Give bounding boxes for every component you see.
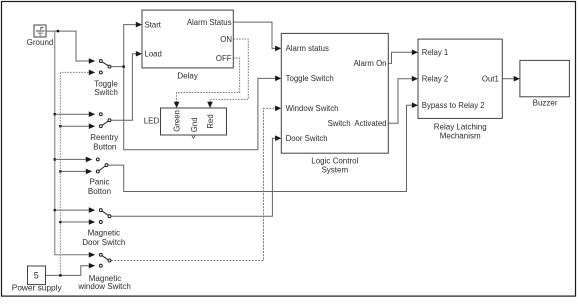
svg-text:OFF: OFF (216, 54, 232, 63)
wire power bus (60, 72, 89, 275)
port arrow Logic Toggle Switch (275, 76, 281, 82)
svg-text:Out1: Out1 (482, 75, 499, 84)
wire door output to Window Switch port (111, 138, 275, 216)
node door top junction (54, 209, 56, 211)
node door bottom junction (59, 221, 61, 223)
svg-text:Gnd: Gnd (190, 117, 199, 132)
svg-text:LED: LED (144, 116, 160, 125)
wire reentry output to Load (111, 54, 136, 120)
port arrow Bypass to Relay 2 (412, 102, 418, 108)
wire ground bus (55, 31, 89, 255)
svg-text:Button: Button (93, 142, 116, 151)
svg-text:Switch: Switch (94, 88, 118, 97)
block LED subsystem (144, 108, 227, 138)
port arrow Logic Door Switch (275, 135, 281, 141)
port arrow Delay Load (136, 51, 142, 57)
block Relay Latching Mechanism (418, 39, 502, 140)
wire reentry bottom input (60, 125, 89, 127)
svg-text:Ground: Ground (27, 38, 54, 47)
wire toggle output to Start and Toggle Switch port (111, 25, 275, 150)
port arrow Logic Window Switch (275, 106, 281, 112)
node power junction (59, 274, 61, 276)
svg-text:Relay Latching: Relay Latching (434, 123, 487, 132)
wire ground output (46, 31, 89, 61)
block Logic Control System (281, 33, 388, 174)
node toggle output junction (123, 65, 125, 67)
arrowheads group: input port arrows (136, 22, 520, 141)
port arrow Delay Start (136, 22, 142, 28)
wire OFF to LED Green (177, 58, 240, 102)
svg-text:Toggle Switch: Toggle Switch (286, 74, 334, 83)
wire reentry top input (55, 113, 89, 115)
manual switch Panic Botton (86, 157, 108, 175)
wire door top input (55, 209, 89, 211)
block Delay subsystem (142, 10, 233, 80)
wire power supply output (46, 266, 90, 276)
node panic bottom junction (59, 170, 61, 172)
node reentry top junction (54, 113, 56, 115)
wire Alarm Status to Alarm status port (233, 22, 275, 48)
manual switch Magnetic window Switch (89, 252, 111, 269)
svg-text:Start: Start (145, 21, 162, 30)
wire Alarm On to Relay 1 (388, 52, 412, 63)
node panic top junction (54, 158, 56, 160)
port arrow Relay 2 (412, 76, 418, 82)
svg-text:window Switch: window Switch (77, 282, 130, 291)
wire Switch Activated to Relay 2 (388, 79, 412, 124)
svg-text:Load: Load (145, 50, 162, 59)
svg-text:Botton: Botton (88, 187, 111, 196)
svg-text:5: 5 (34, 270, 39, 280)
svg-text:Alarm On: Alarm On (354, 59, 387, 68)
svg-text:Reentry: Reentry (90, 133, 118, 142)
svg-text:Door Switch: Door Switch (82, 238, 125, 247)
svg-text:Red: Red (206, 114, 215, 128)
port arrow Relay 1 (412, 50, 418, 56)
node reentry bottom junction (59, 125, 61, 127)
wire panic output to Bypass to Relay 2 (108, 105, 412, 191)
svg-text:Panic: Panic (89, 177, 109, 186)
svg-text:Logic Control: Logic Control (311, 157, 358, 166)
svg-text:Green: Green (172, 110, 181, 132)
svg-text:System: System (321, 166, 348, 175)
svg-text:Relay 1: Relay 1 (422, 48, 448, 57)
port arrow LED Green (down) (174, 102, 180, 108)
svg-text:Magnetic: Magnetic (88, 229, 120, 238)
block Power supply (Constant 5) (12, 266, 63, 293)
svg-text:ON: ON (220, 35, 232, 44)
manual switch Toggle Switch (89, 58, 111, 75)
svg-text:Delay: Delay (177, 71, 197, 80)
wire panic top input (55, 158, 86, 160)
svg-text:Relay 2: Relay 2 (422, 75, 448, 84)
block Ground (27, 25, 54, 47)
wire window output to Door Switch port (111, 108, 275, 260)
node ground junction (57, 30, 59, 32)
port arrow LED Red (down) (207, 102, 213, 108)
svg-text:Alarm status: Alarm status (286, 44, 329, 53)
port arrow Buzzer input (514, 76, 520, 82)
svg-text:Power supply: Power supply (12, 283, 63, 293)
port arrow Logic Alarm status (275, 46, 281, 52)
svg-text:Door Switch: Door Switch (286, 134, 328, 143)
wire Out1 to Buzzer (502, 78, 514, 80)
svg-text:Bypass to Relay 2: Bypass to Relay 2 (422, 101, 485, 110)
pin Gnd unconnected stub (192, 136, 195, 139)
wire panic bottom input (60, 170, 86, 172)
svg-text:Window Switch: Window Switch (286, 104, 339, 113)
svg-text:Mechanism: Mechanism (440, 131, 481, 140)
svg-text:Alarm Status: Alarm Status (187, 18, 232, 27)
block Buzzer (520, 60, 570, 107)
manual switch Reentry Button (89, 111, 111, 129)
svg-text:Switch Activated: Switch Activated (328, 119, 387, 128)
svg-text:Buzzer: Buzzer (533, 99, 558, 108)
manual switch Magnetic Door Switch (89, 207, 111, 225)
wire door bottom input (60, 221, 89, 223)
wire ON to LED Red (210, 39, 248, 102)
svg-text:Toggle: Toggle (94, 79, 118, 88)
